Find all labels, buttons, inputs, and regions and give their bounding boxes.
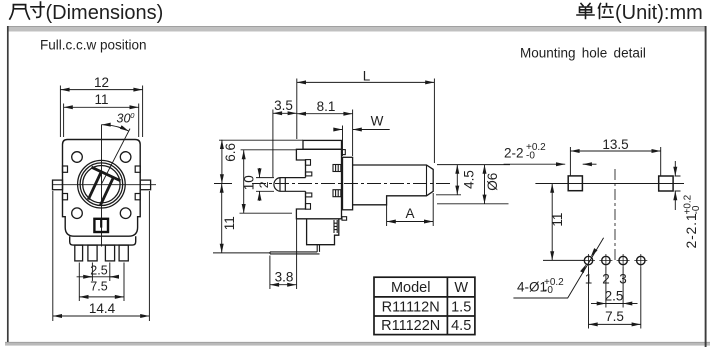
pin hole 3 [617,254,630,267]
svg-text:2: 2 [257,181,271,188]
flange plate [343,157,353,210]
frame top gray band [7,26,706,32]
shaft top extended right [437,164,510,166]
dim 8.1 line [297,113,353,115]
shaft flat bottom extended right [436,194,461,196]
shaft chamfer line [426,165,428,196]
svg-text:-0: -0 [544,285,553,296]
pin hole 1 [582,254,595,267]
table grid [374,277,475,334]
svg-text:4-Ø1: 4-Ø1 [517,280,547,295]
dim 3.5 extension line [272,110,274,178]
shaft outline [353,165,434,205]
svg-text:3.5: 3.5 [274,98,293,113]
dim 3.8 line [270,284,297,286]
svg-text:Ø6: Ø6 [485,173,500,191]
svg-text:Full.c.c.w position: Full.c.c.w position [40,38,147,53]
pin 4 [119,245,128,261]
dim 11 mount bottom line to hole [543,259,584,261]
dim 13.5 line [570,150,660,152]
svg-text:4.5: 4.5 [462,170,477,189]
svg-text:(Unit):mm: (Unit):mm [615,2,703,24]
svg-text:4.5: 4.5 [451,318,471,334]
svg-text:12: 12 [94,75,109,90]
svg-text:10: 10 [242,175,257,190]
svg-text:11: 11 [222,216,237,230]
dim 2.5 mount line and arrows [591,303,606,305]
label 2-2.1 with tolerance (rotated) [683,194,702,248]
rotor middle circle [80,163,123,206]
front view lower block [70,236,136,245]
left side tab [53,180,63,190]
label 2-2 leader arrows [504,163,566,165]
dim 12 line [60,89,142,91]
svg-text:11: 11 [550,213,565,227]
dim L extension lines [297,79,435,164]
pin 3 [105,245,114,261]
mounting horizontal centerline [549,183,684,185]
pin wire bottom extended left [213,252,270,254]
crimp square bottom-right [135,194,140,200]
dim 7.5 mount line [589,323,641,325]
dim W arrows [334,129,343,131]
cap top line extended left [219,139,303,141]
pin hole 4 [634,254,647,267]
center square inner stem [100,220,102,228]
center square element [94,219,108,232]
cap bottom line extended left [241,149,297,151]
svg-text:R11122N: R11122N [381,318,440,334]
svg-text:13.5: 13.5 [602,137,628,152]
dim 11 line [64,106,139,108]
dim W extension line [342,126,344,157]
svg-text:6.6: 6.6 [223,143,238,162]
svg-text:Model: Model [391,280,431,296]
castellation bump 1 [306,160,311,166]
dim 2-2.1 extension ticks [675,176,681,191]
svg-text:Mounting hole detail: Mounting hole detail [520,46,646,61]
svg-text:(Dimensions): (Dimensions) [46,2,164,24]
svg-text:R11112N: R11112N [382,299,440,315]
dim 11 (side) line [221,184,223,253]
corner hole bottom-right [120,208,131,219]
rotor inner circle [83,166,120,203]
lower block [307,219,339,245]
dim 8.1 extension line [352,110,354,157]
svg-text:2-2.1: 2-2.1 [683,213,699,249]
left small shaft extension ticks [256,178,274,192]
front view body outline [63,140,141,237]
svg-text:2.5: 2.5 [605,289,624,304]
svg-text:7.5: 7.5 [605,309,624,324]
corner hole bottom-left [72,208,83,219]
castellation bump 3 [306,193,312,197]
svg-text:14.4: 14.4 [89,301,116,316]
rotor outer circle [78,160,126,208]
30 degree arc with arrows [102,125,129,132]
dim 2.5 line with outside arrows [77,276,119,278]
dim 13.5 extension lines [570,147,660,176]
side view centerline (dash-dot) [252,183,450,185]
mounting hole square right [659,176,673,191]
terminal comb upper [333,165,341,172]
dim 11 mount top tick [535,183,560,185]
shaft bottom extended right [437,203,509,205]
front view horizontal centerline [52,184,156,186]
dim 10 line [243,150,245,213]
pin hole 2 [599,254,612,267]
dim 11 mount line [551,184,553,261]
centerline tick at 6.6/11 junction [214,183,232,185]
30 degree reference diagonal [101,129,130,185]
svg-text:2-2: 2-2 [504,146,524,161]
lower block comb [334,220,337,233]
right side tab [140,180,150,190]
crimp square top-right [135,166,140,172]
dim 14.4 line [53,315,150,317]
svg-text:-0: -0 [526,151,535,162]
bent pin wire [270,245,320,254]
dim 3.5 line [273,112,297,114]
svg-text:2.5: 2.5 [90,263,107,277]
crimp square top-left [63,166,68,172]
terminal comb lower [333,190,341,197]
pin 1 [75,245,83,261]
svg-text:11: 11 [94,92,108,107]
title 单位 (chinese glyphs) [577,4,613,19]
castellation bump 4 [306,204,311,210]
corner hole top-right [120,152,131,163]
dim 7.5 line [79,296,124,298]
dim 12 extension lines [60,86,142,138]
frame bottom gray band [5,342,710,346]
castellation bump 2 [306,172,312,176]
svg-text:L: L [363,69,371,84]
dim A extension lines [387,193,434,226]
svg-text:3.8: 3.8 [275,270,294,285]
side view top cap [303,140,342,149]
dim 6.6 line [221,140,223,184]
dim 4.5 line [456,165,458,195]
frame right line [705,26,707,347]
title 尺寸 (chinese glyphs) [10,2,44,19]
rotor slot (rotated pi shape) [78,167,120,208]
dim 10 extension ticks [240,212,293,214]
dim 11 extension lines [64,104,139,138]
crimp square bottom-left [63,194,68,200]
svg-text:W: W [371,114,384,129]
dim 3.8 extension lines [270,220,297,290]
dim A line [387,221,434,223]
svg-text:-0: -0 [691,205,702,214]
dim 14.4 extension lines [53,191,150,321]
svg-text:30: 30 [117,112,131,126]
4-diameter-1 leader arrowheads [568,264,587,298]
dim 2.5 mount extension lines [606,267,623,308]
side view main slab outline [296,149,341,219]
svg-text:A: A [405,206,414,221]
right edge bump bottom [342,217,347,221]
frame left line [7,26,9,342]
svg-text:0: 0 [130,111,135,120]
dim 2 arrows [259,168,261,178]
svg-text:1.5: 1.5 [451,299,471,315]
right edge bump top [342,150,346,155]
mounting vertical centerline (dashed) [614,169,616,262]
dim 7.5 mount extension lines [589,267,641,329]
front view vertical centerline [101,125,103,247]
dim diameter 6 line [484,165,486,204]
svg-text:7.5: 7.5 [90,280,107,294]
left small shaft [274,178,306,192]
svg-text:W: W [454,280,468,296]
dim 2-2.1 arrows [674,161,676,176]
pin extension lines [79,263,124,302]
mounting hole square left [568,176,582,191]
corner hole top-left [72,152,83,163]
4-diameter-1 leader line [513,238,603,298]
svg-text:8.1: 8.1 [317,99,336,114]
pin 2 [88,245,97,261]
dim L line [297,81,435,83]
